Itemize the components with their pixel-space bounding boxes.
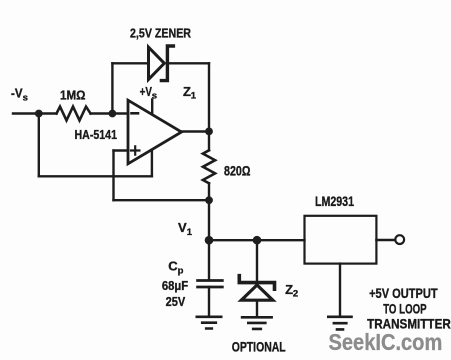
label: Z2 — [285, 282, 298, 300]
svg-text:68μF: 68μF — [162, 279, 189, 293]
wire: +Vs supply stub on op-amp top edge — [151, 100, 153, 115]
svg-text:25V: 25V — [166, 294, 186, 309]
label: V1 node — [178, 220, 193, 238]
wire: op-amp negative supply stub — [151, 150, 153, 177]
svg-text:s: s — [23, 92, 28, 103]
wire: V1 node to regulator input — [209, 239, 305, 241]
node: V1 junction dot — [205, 236, 214, 245]
svg-text:LM2931: LM2931 — [315, 193, 354, 209]
node: inverting input junction dot — [109, 110, 117, 118]
wire: feedback riser up to zener — [111, 63, 113, 113]
svg-text:820Ω: 820Ω — [224, 163, 251, 178]
wire: sense node down to V1 node — [208, 200, 210, 240]
svg-text:V: V — [178, 220, 187, 235]
wire: op-amp output to node — [182, 130, 210, 132]
wire: -Vs rail bottom run — [39, 175, 152, 177]
resistor R2 820 ohm — [203, 150, 215, 183]
zener diode Z1 cathode bar — [161, 46, 173, 81]
wire: top feedback right segment — [167, 62, 209, 64]
svg-text:p: p — [178, 265, 184, 276]
node: input junction dot — [35, 110, 43, 118]
zener diode Z1 triangle — [149, 47, 165, 79]
zener diode Z2 bottom lead — [256, 300, 258, 317]
wire: noninverting input run to sense node — [114, 199, 210, 201]
zener diode Z2 cathode bar — [239, 276, 274, 290]
svg-text:Z: Z — [285, 282, 293, 297]
wire: regulator ground lead — [339, 264, 341, 317]
capacitor Cp bottom lead — [208, 287, 210, 317]
regulator U2 LM2931 box — [305, 216, 377, 264]
wire: resistor to inverting input — [91, 112, 129, 114]
svg-text:-V: -V — [11, 87, 23, 101]
terminal: +5V output circle — [395, 235, 404, 244]
ground: below capacitor Cp — [197, 317, 221, 329]
label: +Vs supply — [140, 85, 157, 101]
svg-text:1: 1 — [191, 91, 197, 102]
label: -Vs input — [11, 87, 28, 104]
wire: output node to 820 ohm resistor — [208, 131, 210, 150]
wire: regulator output lead — [376, 239, 395, 241]
ground: below zener Z2 — [242, 317, 272, 329]
node: Z2 branch junction dot — [253, 236, 262, 245]
svg-text:SeekIC.com: SeekIC.com — [329, 329, 443, 355]
svg-text:2,5V ZENER: 2,5V ZENER — [130, 25, 191, 40]
label: Z1 — [183, 84, 197, 102]
ground: below regulator LM2931 — [328, 317, 351, 330]
node: feedback sense junction dot — [205, 196, 213, 204]
capacitor Cp top lead — [208, 240, 210, 279]
wire: feedback drop to op-amp output — [208, 63, 210, 131]
op-amp minus input symbol — [132, 112, 139, 115]
wire: noninverting input lead — [114, 149, 129, 151]
wire: -Vs rail drop from input junction — [38, 114, 40, 177]
wire: 820 ohm resistor to lower junction — [208, 183, 210, 200]
svg-text:1MΩ: 1MΩ — [60, 88, 86, 102]
resistor R1 1M ohm — [57, 107, 91, 121]
capacitor Cp top plate — [198, 279, 223, 282]
label: Cp — [168, 258, 183, 276]
svg-text:1: 1 — [187, 227, 193, 238]
capacitor Cp bottom plate — [198, 286, 223, 289]
op-amp plus input symbol — [131, 146, 139, 154]
svg-text:HA-5141: HA-5141 — [75, 128, 118, 142]
svg-text:s: s — [152, 90, 157, 101]
zener diode Z2 top lead — [256, 240, 258, 281]
op-amp U1 HA-5141 triangle — [128, 100, 182, 164]
svg-text:+5V OUTPUT: +5V OUTPUT — [369, 286, 438, 301]
svg-text:+V: +V — [140, 85, 153, 99]
wire: noninverting input drop — [112, 151, 114, 201]
wire: top feedback left segment — [112, 62, 148, 64]
wire: -Vs input lead — [13, 112, 57, 114]
node: op-amp output junction dot — [205, 127, 213, 135]
svg-text:TO LOOP: TO LOOP — [383, 301, 426, 316]
svg-text:2: 2 — [293, 289, 298, 300]
svg-text:OPTIONAL: OPTIONAL — [232, 340, 286, 355]
zener diode Z2 triangle — [241, 285, 272, 300]
